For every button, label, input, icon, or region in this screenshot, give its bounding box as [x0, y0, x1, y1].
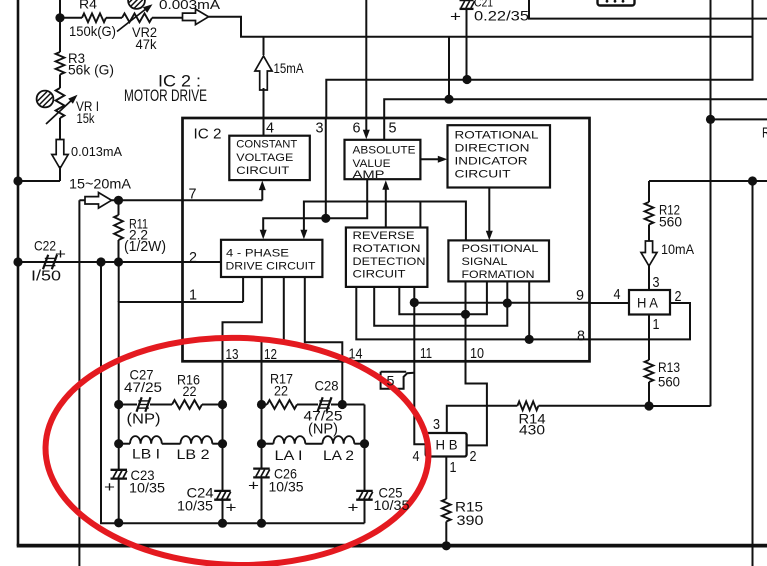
svg-text:+: +	[248, 478, 259, 495]
svg-text:22: 22	[183, 384, 197, 399]
svg-text:9: 9	[576, 287, 584, 304]
svg-text:DIRECTION: DIRECTION	[455, 143, 530, 155]
svg-text:150k(G): 150k(G)	[69, 24, 116, 39]
svg-text:560: 560	[659, 215, 682, 230]
svg-text:2: 2	[470, 449, 477, 465]
svg-text:VOLTAGE: VOLTAGE	[236, 152, 294, 164]
svg-text:4: 4	[614, 287, 621, 303]
svg-text:R: R	[762, 126, 767, 142]
svg-text:14: 14	[349, 346, 363, 363]
svg-text:CONSTANT: CONSTANT	[236, 139, 297, 151]
svg-text:LB I: LB I	[132, 447, 160, 462]
svg-text:+: +	[348, 500, 359, 517]
svg-text:15mA: 15mA	[274, 61, 305, 76]
svg-text:4: 4	[413, 449, 420, 465]
svg-text:POSITIONAL: POSITIONAL	[462, 243, 539, 255]
svg-text:AMP: AMP	[353, 169, 385, 181]
svg-text:DETECTION: DETECTION	[353, 256, 426, 268]
svg-text:13: 13	[226, 346, 239, 363]
svg-text:3: 3	[316, 120, 324, 137]
svg-text:0.22/35: 0.22/35	[474, 9, 529, 24]
svg-text:11: 11	[420, 345, 432, 362]
svg-text:IC 2: IC 2	[194, 126, 222, 143]
svg-text:H A: H A	[637, 296, 659, 311]
svg-text:C28: C28	[315, 379, 339, 394]
svg-text:8: 8	[577, 328, 585, 345]
svg-text:ROTATION: ROTATION	[353, 243, 421, 255]
svg-text:390: 390	[457, 513, 484, 528]
svg-text:LA I: LA I	[275, 448, 303, 463]
svg-text:(NP): (NP)	[308, 421, 338, 438]
svg-text:1: 1	[653, 317, 660, 333]
svg-text:0.003mA: 0.003mA	[159, 0, 220, 12]
svg-text:R13: R13	[658, 360, 680, 375]
svg-text:(NP): (NP)	[127, 411, 161, 428]
svg-text:7: 7	[189, 186, 197, 203]
svg-text:+: +	[450, 9, 461, 26]
svg-text:22: 22	[274, 384, 288, 399]
svg-text:MOTOR DRIVE: MOTOR DRIVE	[124, 86, 207, 105]
svg-text:+: +	[226, 500, 237, 517]
svg-text:56k (G): 56k (G)	[68, 63, 114, 78]
svg-text:FORMATION: FORMATION	[462, 269, 535, 281]
svg-text:C22: C22	[34, 239, 56, 254]
svg-text:LB 2: LB 2	[177, 447, 210, 462]
svg-text:3: 3	[433, 417, 440, 433]
svg-text:2: 2	[189, 249, 197, 266]
svg-text:SIGNAL: SIGNAL	[462, 256, 508, 268]
svg-text:H B: H B	[436, 438, 458, 453]
svg-text:10/35: 10/35	[269, 480, 304, 495]
svg-text:15k: 15k	[77, 111, 95, 126]
svg-text:DRIVE CIRCUIT: DRIVE CIRCUIT	[226, 261, 316, 273]
svg-text:ABSOLUTE: ABSOLUTE	[353, 145, 416, 157]
svg-text:3: 3	[653, 275, 660, 291]
svg-text:2: 2	[675, 289, 682, 305]
svg-text:10: 10	[470, 345, 484, 362]
svg-text:CIRCUIT: CIRCUIT	[236, 165, 289, 177]
svg-text:0.013mA: 0.013mA	[71, 144, 122, 159]
svg-text:12: 12	[264, 346, 277, 363]
svg-text:4 - PHASE: 4 - PHASE	[226, 248, 290, 260]
svg-text:R4: R4	[79, 0, 97, 12]
svg-text:REVERSE: REVERSE	[353, 230, 416, 242]
svg-text:+: +	[55, 246, 66, 263]
svg-text:4: 4	[266, 120, 274, 137]
svg-text:10mA: 10mA	[661, 242, 695, 257]
svg-text:560: 560	[658, 375, 680, 390]
svg-text:10/35: 10/35	[374, 498, 410, 513]
svg-text:+: +	[104, 479, 115, 496]
svg-text:LA 2: LA 2	[323, 448, 354, 463]
svg-text:ROTATIONAL: ROTATIONAL	[455, 130, 539, 142]
svg-text:CIRCUIT: CIRCUIT	[455, 169, 511, 181]
svg-text:CIRCUIT: CIRCUIT	[353, 269, 406, 281]
svg-text:430: 430	[519, 423, 545, 438]
svg-text:1: 1	[450, 460, 457, 476]
svg-text:I/50: I/50	[31, 268, 61, 285]
svg-text:47/25: 47/25	[124, 380, 162, 395]
svg-text:1: 1	[189, 287, 197, 304]
svg-text:5: 5	[387, 374, 395, 389]
svg-text:10/35: 10/35	[129, 481, 165, 496]
svg-text:15~20mA: 15~20mA	[69, 177, 132, 192]
svg-text:47k: 47k	[136, 37, 157, 52]
svg-text:5: 5	[389, 120, 397, 137]
svg-text:10/35: 10/35	[177, 499, 213, 514]
svg-text:6: 6	[353, 120, 361, 137]
svg-text:INDICATOR: INDICATOR	[455, 156, 528, 168]
svg-text:(1/2W): (1/2W)	[124, 239, 166, 255]
